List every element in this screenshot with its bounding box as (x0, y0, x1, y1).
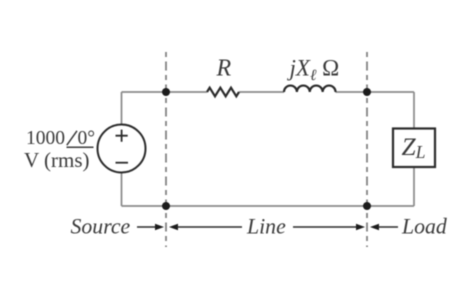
wire top: source corner to node A (122, 91, 167, 93)
value label 1000 angle 0 deg (26, 128, 95, 149)
voltage source VS circle (98, 125, 146, 173)
load impedance ZL box (393, 129, 435, 168)
wire top: node A to resistor (166, 91, 207, 93)
dimension arrow: load region left (370, 224, 398, 230)
svg-text:R: R (216, 56, 232, 82)
node B (top right junction) (363, 88, 371, 96)
dimension arrow: line region left (169, 224, 242, 230)
resistor R (207, 88, 239, 97)
wire bottom: node D to load corner (367, 205, 414, 207)
dashed boundary line: line/load (366, 52, 368, 247)
node C (bottom left junction) (162, 202, 170, 210)
dashed boundary line: source/line (165, 52, 167, 247)
svg-text:Load: Load (401, 215, 447, 239)
wire bottom: node C to node D (166, 205, 367, 207)
wire top: resistor to inductor (239, 91, 284, 93)
minus polarity mark (116, 162, 129, 164)
dimension arrow: line region right (293, 224, 365, 230)
inductor L (line reactance) (284, 86, 336, 92)
wire bottom: source corner to node C (122, 205, 167, 207)
svg-text:Line: Line (246, 215, 286, 239)
dimension arrow: source region right (137, 224, 164, 230)
wire top: node B to load corner (367, 91, 414, 93)
wire: source top stub (121, 92, 123, 125)
plus polarity mark (116, 130, 128, 142)
svg-text:0°: 0° (78, 128, 96, 149)
node D (bottom right junction) (363, 202, 371, 210)
wire: load bottom stub (413, 167, 415, 206)
node A (top left junction) (162, 88, 170, 96)
wire: load top stub (413, 92, 415, 129)
wire top: inductor to node B (336, 91, 368, 93)
svg-text:V (rms): V (rms) (24, 148, 90, 172)
wire: source bottom stub (121, 173, 123, 207)
svg-text:1000: 1000 (26, 128, 65, 149)
svg-text:Source: Source (71, 215, 131, 239)
